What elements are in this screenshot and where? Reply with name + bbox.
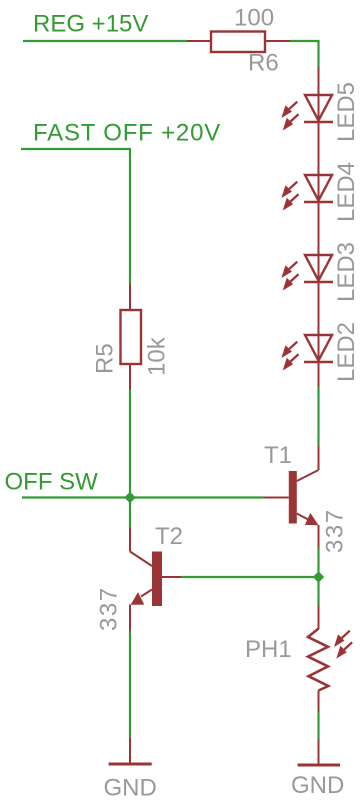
- svg-text:GND: GND: [104, 775, 157, 800]
- svg-text:PH1: PH1: [245, 636, 292, 663]
- svg-text:T2: T2: [155, 523, 183, 550]
- svg-text:10k: 10k: [144, 336, 171, 376]
- svg-text:OFF SW: OFF SW: [5, 469, 99, 496]
- svg-text:LED4: LED4: [333, 162, 360, 222]
- svg-text:LED5: LED5: [333, 82, 360, 142]
- svg-text:GND: GND: [291, 772, 344, 799]
- svg-text:LED3: LED3: [333, 242, 360, 302]
- svg-text:T1: T1: [264, 442, 292, 469]
- svg-text:337: 337: [322, 508, 349, 553]
- svg-text:LED2: LED2: [333, 322, 360, 382]
- svg-text:100: 100: [234, 5, 274, 32]
- svg-text:337: 337: [96, 586, 123, 631]
- svg-text:R6: R6: [248, 50, 279, 77]
- svg-text:FAST OFF +20V: FAST OFF +20V: [33, 120, 221, 147]
- svg-text:R5: R5: [92, 343, 119, 374]
- svg-text:REG +15V: REG +15V: [33, 11, 148, 38]
